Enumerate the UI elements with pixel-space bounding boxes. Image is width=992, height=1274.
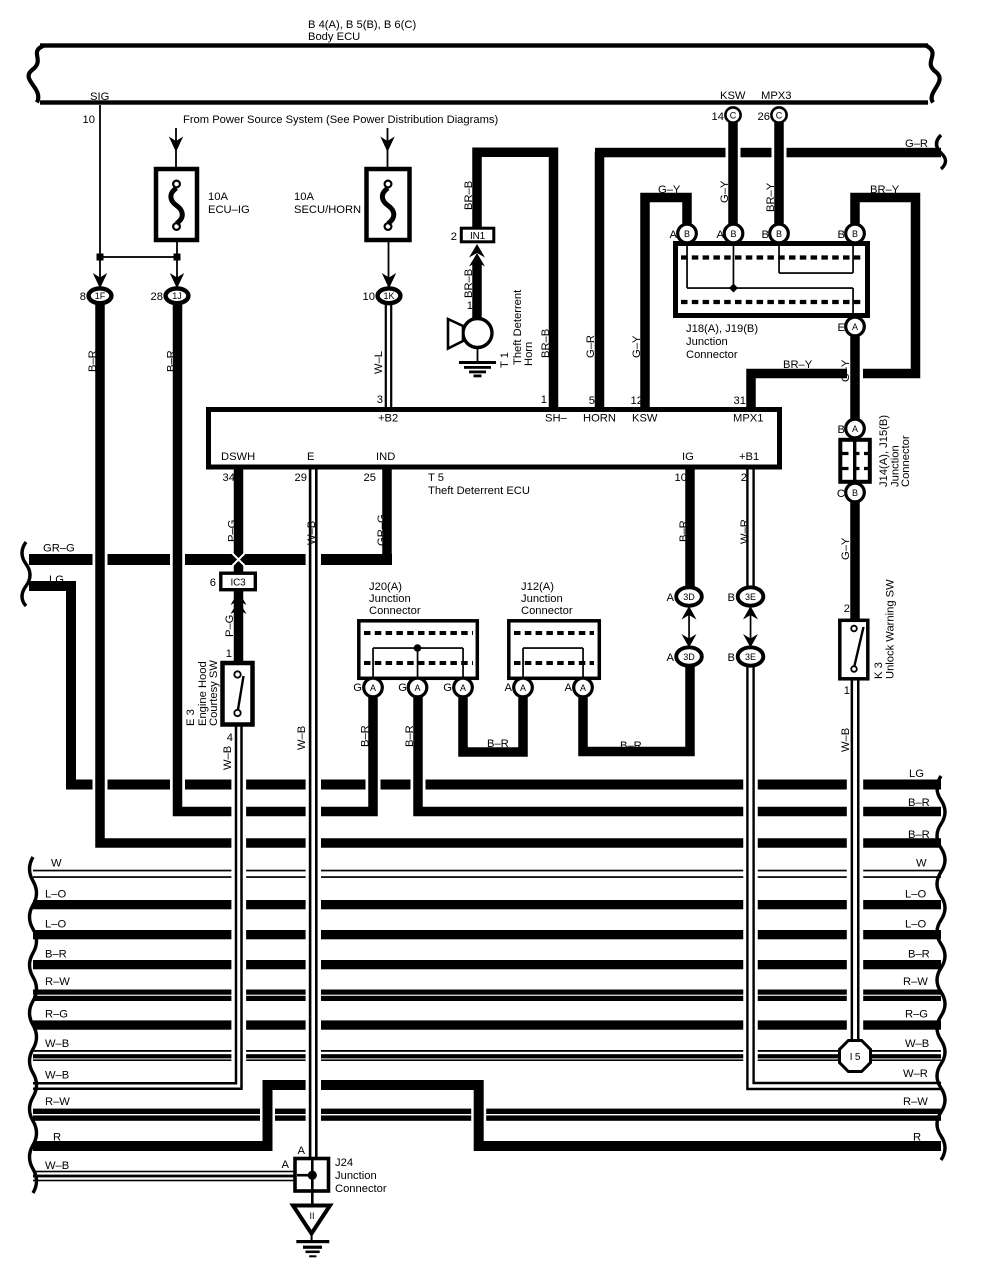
svg-text:R: R xyxy=(53,1132,61,1144)
fuse ECU-IG box xyxy=(156,169,197,240)
arrow into fuse 2 xyxy=(380,137,394,153)
wire P-G IC3 to E3 xyxy=(234,589,244,663)
svg-text:A: A xyxy=(370,683,376,693)
svg-text:L–O: L–O xyxy=(905,919,926,931)
svg-text:A: A xyxy=(852,424,858,434)
svg-text:Horn: Horn xyxy=(523,342,535,366)
junction connector J24 box xyxy=(295,1159,329,1192)
svg-text:SIG: SIG xyxy=(90,91,109,103)
svg-text:R–W: R–W xyxy=(45,1096,70,1108)
break squiggle G-R right xyxy=(937,135,946,169)
svg-text:B 4(A), B 5(B), B 6(C): B 4(A), B 5(B), B 6(C) xyxy=(308,19,416,31)
connector pair 3D xyxy=(676,587,702,605)
svg-text:B–R: B–R xyxy=(908,949,930,961)
svg-text:6: 6 xyxy=(210,577,216,589)
wire W-B bus (triple) xyxy=(33,1050,941,1052)
svg-text:R: R xyxy=(913,1132,921,1144)
svg-text:J12(A): J12(A) xyxy=(521,581,554,593)
svg-text:KSW: KSW xyxy=(720,90,746,102)
svg-text:+B2: +B2 xyxy=(378,413,398,425)
svg-text:G–Y: G–Y xyxy=(658,184,681,196)
svg-text:R–G: R–G xyxy=(905,1009,928,1021)
switch E3 hood box xyxy=(223,663,253,725)
svg-text:Courtesy SW: Courtesy SW xyxy=(208,660,220,726)
wire GR-G horizontal xyxy=(29,554,392,565)
svg-text:3E: 3E xyxy=(745,592,756,602)
connector oval 1J xyxy=(166,288,189,303)
svg-text:T 1: T 1 xyxy=(499,352,511,368)
svg-text:B: B xyxy=(776,229,782,239)
svg-text:A: A xyxy=(852,322,858,332)
svg-text:W–B: W–B xyxy=(905,1038,929,1050)
splice I5 octagon xyxy=(840,1041,871,1072)
svg-text:Connector: Connector xyxy=(686,349,738,361)
connector C circle 14 xyxy=(725,107,740,122)
arrows up into IC3 xyxy=(231,592,247,606)
wire thin junction horizontal SIG to fuse1 xyxy=(100,256,177,258)
svg-text:+B1: +B1 xyxy=(739,451,759,463)
svg-text:W–B: W–B xyxy=(296,726,308,750)
svg-text:W–L: W–L xyxy=(373,351,385,374)
svg-text:B: B xyxy=(728,592,735,604)
svg-text:A: A xyxy=(298,1145,306,1157)
wire B-R from 1F down and across (bus B-R 2) xyxy=(100,306,941,843)
svg-text:B: B xyxy=(684,229,690,239)
junction connector J12 box xyxy=(509,621,600,679)
connector IC3 xyxy=(221,573,256,590)
wire R-W bus 2 (double thick) xyxy=(33,1109,941,1114)
svg-text:A: A xyxy=(520,683,526,693)
connector circles on J18 xyxy=(678,224,697,243)
svg-text:A: A xyxy=(667,592,675,604)
svg-text:C: C xyxy=(837,488,845,500)
svg-text:B: B xyxy=(730,229,736,239)
switch K3 box xyxy=(840,620,868,679)
svg-text:A: A xyxy=(505,682,513,694)
svg-text:L–O: L–O xyxy=(905,889,926,901)
wire SIG thin xyxy=(99,105,101,258)
connector circles G-A on J20 xyxy=(364,678,383,697)
svg-text:10A: 10A xyxy=(294,191,314,203)
wire R-W bus (double) xyxy=(33,990,941,995)
wire thin fuse2 to 1K xyxy=(388,242,390,291)
wire G-Y KSW pin up and to J18 B1 xyxy=(645,198,687,408)
svg-text:A: A xyxy=(667,652,675,664)
svg-text:BR–B: BR–B xyxy=(540,329,552,358)
svg-text:B–R: B–R xyxy=(404,725,416,747)
svg-text:3: 3 xyxy=(377,394,383,406)
svg-text:C: C xyxy=(730,111,737,121)
node junction dots xyxy=(97,254,104,261)
svg-text:W–B: W–B xyxy=(306,521,318,545)
svg-text:26: 26 xyxy=(758,111,770,123)
svg-text:3D: 3D xyxy=(683,592,695,602)
svg-text:G–R: G–R xyxy=(905,138,928,150)
svg-text:W–B: W–B xyxy=(45,1038,69,1050)
svg-text:28: 28 xyxy=(151,291,163,303)
svg-text:SECU/HORN: SECU/HORN xyxy=(294,204,361,216)
svg-text:Connector: Connector xyxy=(521,605,573,617)
svg-text:MPX1: MPX1 xyxy=(733,413,763,425)
svg-text:BR–B: BR–B xyxy=(463,181,475,210)
wire B-R from 1J down, across, up to J20 pin A1 xyxy=(178,306,374,812)
arrow into fuse 1 xyxy=(169,137,183,153)
wire W-B from K3 down to I5 (double) xyxy=(847,684,863,1040)
connector IN1 xyxy=(461,228,494,242)
svg-text:A: A xyxy=(282,1159,290,1171)
svg-text:A: A xyxy=(580,683,586,693)
svg-text:II: II xyxy=(309,1211,314,1221)
svg-text:R–W: R–W xyxy=(903,1096,928,1108)
svg-text:From Power Source System (See: From Power Source System (See Power Dist… xyxy=(183,114,498,126)
svg-text:B–R: B–R xyxy=(678,520,690,542)
wire G-Y from 14C to J18 xyxy=(726,126,741,222)
break squiggle bottom right xyxy=(937,776,945,1160)
svg-text:G–Y: G–Y xyxy=(840,537,852,560)
svg-text:31: 31 xyxy=(734,395,746,407)
svg-text:25: 25 xyxy=(364,472,376,484)
junction connector J18/J19 box xyxy=(676,244,868,316)
svg-text:IG: IG xyxy=(682,451,694,463)
svg-text:B: B xyxy=(852,488,858,498)
svg-text:Junction: Junction xyxy=(335,1170,377,1182)
svg-text:P–G: P–G xyxy=(224,615,236,637)
wire W-R +B1 upper (double) xyxy=(746,469,748,589)
svg-text:LG: LG xyxy=(909,768,924,780)
svg-text:10: 10 xyxy=(83,114,95,126)
svg-text:A: A xyxy=(460,683,466,693)
svg-text:L–O: L–O xyxy=(45,889,66,901)
svg-text:L–O: L–O xyxy=(45,919,66,931)
connector circle E-A xyxy=(846,317,865,336)
svg-text:HORN: HORN xyxy=(583,413,616,425)
wire R with jog (drawn first so later verticals cut it) xyxy=(33,1085,941,1146)
svg-text:W–B: W–B xyxy=(45,1070,69,1082)
svg-text:2: 2 xyxy=(741,472,747,484)
fuse SECU/HORN box xyxy=(367,169,410,240)
wire GR-G ECU IND down to GR-G bus xyxy=(382,469,392,565)
svg-text:Body ECU: Body ECU xyxy=(308,31,360,43)
svg-text:B–R: B–R xyxy=(360,725,372,747)
svg-text:34: 34 xyxy=(223,472,235,484)
svg-text:E 3: E 3 xyxy=(185,709,197,726)
svg-text:B–R: B–R xyxy=(87,350,99,372)
svg-text:2: 2 xyxy=(451,231,457,243)
svg-text:B: B xyxy=(762,229,769,241)
svg-text:G–Y: G–Y xyxy=(840,359,852,382)
svg-text:BR–Y: BR–Y xyxy=(765,182,777,212)
svg-text:12: 12 xyxy=(631,395,643,407)
wire thin 1F feed xyxy=(99,257,101,291)
svg-text:B–R: B–R xyxy=(166,350,178,372)
wire G-Y J18 E to J14 xyxy=(847,340,863,415)
wire P-G DSWH to IC3 (crosses GR-G with X mark) xyxy=(234,469,244,575)
svg-text:W: W xyxy=(916,858,927,870)
wire W-R thin between 3E connectors xyxy=(750,606,752,651)
wire W-L fuse2/1K to ECU +B2 (double) xyxy=(385,303,387,408)
svg-text:B: B xyxy=(852,229,858,239)
svg-text:G–Y: G–Y xyxy=(631,335,643,358)
svg-text:Junction: Junction xyxy=(369,593,411,605)
wire B-R J12 A2 to ECU IG xyxy=(583,667,690,752)
wire thin fuse feeds from arrows xyxy=(175,128,177,167)
svg-text:BR–Y: BR–Y xyxy=(783,359,813,371)
svg-text:Theft Deterrent ECU: Theft Deterrent ECU xyxy=(428,485,530,497)
svg-text:A: A xyxy=(670,229,678,241)
svg-text:KSW: KSW xyxy=(632,413,658,425)
svg-text:BR–Y: BR–Y xyxy=(870,184,900,196)
break squiggle GR-G/LG left xyxy=(22,542,30,606)
svg-text:Connector: Connector xyxy=(335,1183,387,1195)
wire G-R horizontal xyxy=(595,148,941,158)
wire W bus (double thin) xyxy=(33,870,941,872)
svg-text:ECU–IG: ECU–IG xyxy=(208,204,250,216)
svg-text:G: G xyxy=(443,682,452,694)
svg-text:14: 14 xyxy=(712,111,724,123)
wire B-R ECU IG upper part xyxy=(685,469,695,589)
svg-text:1K: 1K xyxy=(383,291,394,301)
arrows up into IN1 (double chevron) xyxy=(469,244,485,258)
wire L-O bus 2 xyxy=(33,930,941,939)
svg-text:10A: 10A xyxy=(208,191,228,203)
wire thin between 3D connectors xyxy=(688,606,690,651)
svg-text:5: 5 xyxy=(589,395,595,407)
svg-text:J14(A), J15(B): J14(A), J15(B) xyxy=(878,415,890,487)
svg-text:10: 10 xyxy=(675,472,687,484)
svg-text:B: B xyxy=(728,652,735,664)
wire G-Y J14 to K3 xyxy=(850,502,860,619)
svg-text:10: 10 xyxy=(363,291,375,303)
svg-text:Connector: Connector xyxy=(369,605,421,617)
svg-text:W–R: W–R xyxy=(903,1068,928,1080)
svg-text:Junction: Junction xyxy=(521,593,563,605)
svg-text:Unlock Warning SW: Unlock Warning SW xyxy=(885,579,897,679)
svg-text:T 5: T 5 xyxy=(428,472,444,484)
junction connector J20 box xyxy=(359,621,478,679)
Body ECU bus bar xyxy=(40,43,928,47)
svg-text:1: 1 xyxy=(844,685,850,697)
wire W-B to J24 (double) xyxy=(33,1171,294,1173)
svg-text:29: 29 xyxy=(295,472,307,484)
svg-text:GR–G: GR–G xyxy=(376,514,388,546)
svg-text:B–R: B–R xyxy=(487,738,509,750)
svg-text:8: 8 xyxy=(80,291,86,303)
wire W-R lower: down from 3E and right to break xyxy=(751,667,942,1087)
svg-text:G–Y: G–Y xyxy=(719,180,731,203)
svg-text:W–R: W–R xyxy=(739,519,751,544)
wire B-R J20 A3 to J12 A1 xyxy=(463,696,523,752)
svg-text:Junction: Junction xyxy=(686,336,728,348)
svg-text:G–R: G–R xyxy=(585,335,597,358)
connector circle C-B xyxy=(846,483,865,502)
svg-text:4: 4 xyxy=(227,732,233,744)
ground below J24 xyxy=(311,1192,314,1206)
break squiggle bottom left xyxy=(30,857,37,1193)
wire thin fuse1 to 1J xyxy=(176,242,178,291)
svg-text:3D: 3D xyxy=(683,652,695,662)
wire B-R from J20 pin A2 down and across right xyxy=(418,696,941,812)
wire B-R bus xyxy=(33,960,941,969)
svg-text:E: E xyxy=(307,451,314,463)
svg-text:R–W: R–W xyxy=(45,976,70,988)
svg-text:1F: 1F xyxy=(95,291,106,301)
svg-text:B: B xyxy=(838,229,845,241)
svg-text:I 5: I 5 xyxy=(850,1052,861,1063)
wire BR-B horn to IN1 xyxy=(472,262,482,320)
svg-text:A: A xyxy=(565,682,573,694)
svg-text:J24: J24 xyxy=(335,1157,353,1169)
connector oval 1F xyxy=(89,288,112,303)
svg-text:MPX3: MPX3 xyxy=(761,90,791,102)
svg-text:C: C xyxy=(776,111,783,121)
junction connector J14/J15 box xyxy=(840,440,870,482)
svg-text:R–G: R–G xyxy=(45,1009,68,1021)
horn T1 xyxy=(463,319,492,348)
svg-text:1: 1 xyxy=(467,300,473,312)
svg-text:GR–G: GR–G xyxy=(43,543,75,555)
svg-text:IC3: IC3 xyxy=(231,578,247,589)
svg-text:W–B: W–B xyxy=(840,728,852,752)
svg-text:W–B: W–B xyxy=(222,746,234,770)
connector circles A-A on J12 xyxy=(514,678,533,697)
wire R-G bus xyxy=(33,1020,941,1029)
svg-text:K 3: K 3 xyxy=(873,662,885,679)
svg-text:IND: IND xyxy=(376,451,395,463)
wire BR-Y loop from MPX1 xyxy=(751,198,916,408)
svg-text:B–R: B–R xyxy=(45,949,67,961)
svg-text:B–R: B–R xyxy=(908,797,930,809)
svg-text:J20(A): J20(A) xyxy=(369,581,402,593)
arrows into 1F 1J 1K xyxy=(93,273,107,289)
svg-text:1: 1 xyxy=(226,648,232,660)
svg-text:LG: LG xyxy=(49,574,64,586)
connector pair 3E xyxy=(738,587,764,605)
svg-text:A: A xyxy=(414,683,420,693)
connector oval 1K xyxy=(378,288,401,303)
svg-text:J18(A), J19(B): J18(A), J19(B) xyxy=(686,323,758,335)
svg-text:Connector: Connector xyxy=(900,435,912,487)
svg-text:A: A xyxy=(717,229,725,241)
svg-text:DSWH: DSWH xyxy=(221,451,255,463)
svg-text:B–R: B–R xyxy=(908,829,930,841)
wire L-O bus 1 xyxy=(33,900,941,909)
wire BR-B horn loop to SH- xyxy=(477,152,554,407)
svg-text:SH–: SH– xyxy=(545,413,568,425)
svg-text:B–R: B–R xyxy=(620,740,642,752)
wire LG (left break, down, across) xyxy=(29,586,941,785)
svg-text:3E: 3E xyxy=(745,652,756,662)
svg-text:G: G xyxy=(353,682,362,694)
svg-text:IN1: IN1 xyxy=(470,231,486,242)
svg-text:1J: 1J xyxy=(172,291,182,301)
svg-text:G: G xyxy=(398,682,407,694)
svg-text:2: 2 xyxy=(844,603,850,615)
svg-text:B: B xyxy=(838,424,845,436)
wire W-B hood switch down and left to break (double) xyxy=(231,729,246,1081)
svg-text:P–G: P–G xyxy=(227,520,239,542)
svg-text:E: E xyxy=(838,322,845,334)
svg-text:R–W: R–W xyxy=(903,976,928,988)
connector C circle 26 xyxy=(771,107,786,122)
svg-text:BR–B: BR–B xyxy=(463,269,475,298)
wire G-R HORN pin up xyxy=(595,152,605,408)
svg-text:1: 1 xyxy=(541,394,547,406)
wire W-B from ECU E down to J24 (double) xyxy=(306,475,321,1155)
ECU T5 box xyxy=(209,410,780,468)
wire BR-Y from 26C to J18 xyxy=(772,126,787,222)
svg-text:W–B: W–B xyxy=(45,1160,69,1172)
connector circle B-A xyxy=(846,419,865,438)
svg-text:W: W xyxy=(51,858,62,870)
